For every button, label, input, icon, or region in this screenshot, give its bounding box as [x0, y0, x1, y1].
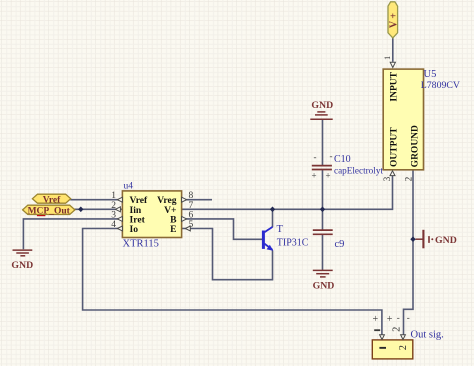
svg-text:-: - — [330, 151, 333, 161]
svg-text:GND: GND — [435, 235, 457, 246]
svg-text:-: - — [407, 313, 410, 323]
svg-text:4: 4 — [111, 220, 116, 230]
svg-text:capElectrolyt: capElectrolyt — [334, 165, 383, 175]
svg-text:E: E — [170, 224, 176, 235]
svg-text:V +: V + — [388, 13, 399, 29]
svg-text:GND: GND — [311, 100, 333, 111]
svg-text:-: - — [314, 152, 317, 162]
svg-text:TIP31C: TIP31C — [277, 238, 309, 249]
svg-text:-: - — [397, 313, 400, 323]
svg-text:1: 1 — [382, 56, 392, 60]
svg-text:2: 2 — [398, 345, 409, 350]
svg-text:1: 1 — [111, 191, 116, 201]
svg-text:2: 2 — [404, 177, 414, 182]
svg-text:GND: GND — [11, 260, 33, 271]
svg-text:7: 7 — [189, 201, 194, 211]
svg-text:INPUT: INPUT — [389, 71, 399, 101]
svg-text:GROUND: GROUND — [410, 125, 420, 167]
svg-text:C10: C10 — [334, 154, 351, 165]
svg-text:2: 2 — [391, 327, 402, 332]
svg-text:Io: Io — [130, 224, 139, 235]
svg-text:U5: U5 — [424, 69, 437, 80]
svg-text:XTR115: XTR115 — [123, 239, 159, 250]
svg-text:+: + — [312, 171, 317, 181]
svg-text:Out sig.: Out sig. — [411, 330, 444, 341]
svg-text:6: 6 — [189, 210, 194, 220]
svg-text:+: + — [326, 171, 331, 181]
svg-text:c9: c9 — [335, 239, 345, 250]
svg-text:MCP_Out: MCP_Out — [28, 206, 71, 216]
svg-text:T: T — [277, 224, 284, 235]
svg-text:+: + — [387, 314, 393, 325]
svg-text:L7809CV: L7809CV — [421, 80, 460, 91]
svg-text:3: 3 — [382, 176, 392, 181]
svg-text:OUTPUT: OUTPUT — [389, 127, 399, 167]
svg-text:8: 8 — [189, 191, 194, 201]
svg-text:u4: u4 — [124, 181, 134, 191]
svg-text:GND: GND — [313, 281, 335, 292]
svg-text:3: 3 — [111, 210, 116, 220]
svg-text:+: + — [373, 314, 379, 325]
svg-text:Vref: Vref — [43, 195, 61, 205]
